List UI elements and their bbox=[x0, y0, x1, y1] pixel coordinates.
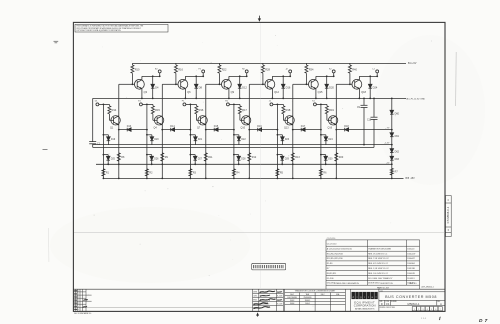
resistor R20 bbox=[335, 153, 344, 161]
wire: base feed bbox=[336, 83, 352, 85]
svg-text:R13: R13 bbox=[295, 156, 300, 159]
drafters/approvals table bbox=[253, 289, 284, 311]
diode D4 bbox=[151, 76, 159, 98]
diode D60 bbox=[390, 110, 400, 115]
node: diode to next line A bbox=[190, 129, 192, 131]
node: bottom rail junctions bbox=[103, 178, 105, 180]
svg-text:D18: D18 bbox=[344, 125, 349, 128]
svg-text:C1,C9,C10: C1,C9,C10 bbox=[327, 244, 337, 246]
diode D24 bbox=[320, 134, 333, 145]
wire: input bbox=[316, 103, 327, 105]
svg-text:CHK.: CHK. bbox=[253, 296, 258, 298]
node -1.4V tap bbox=[391, 144, 393, 146]
svg-text:B:B -15V: B:B -15V bbox=[406, 178, 416, 180]
svg-text:D24: D24 bbox=[373, 85, 378, 89]
left margin tick marks bbox=[43, 41, 59, 149]
node: diode to next line A bbox=[320, 129, 322, 131]
svg-text:D30: D30 bbox=[328, 158, 333, 160]
node: emitter on GND rail bbox=[359, 98, 361, 100]
svg-text:D20: D20 bbox=[154, 139, 159, 141]
wire: base feed bbox=[293, 83, 309, 85]
resistor R28 bbox=[261, 63, 270, 84]
resistor R22 bbox=[218, 63, 227, 84]
svg-text:2: 2 bbox=[418, 309, 419, 311]
wire: vertical channel line bbox=[161, 84, 163, 178]
node: bottom rail junctions bbox=[146, 178, 148, 180]
wire: line A vertical bbox=[276, 104, 278, 178]
capacitor C1 bbox=[89, 142, 101, 148]
output terminal J2 bbox=[286, 69, 292, 77]
node: bottom rail junctions bbox=[320, 178, 322, 180]
svg-text:1300249: 1300249 bbox=[407, 273, 415, 275]
svg-text:RES. 1K 1/4W 5% CC: RES. 1K 1/4W 5% CC bbox=[368, 253, 388, 255]
node: bottom rail junctions bbox=[277, 178, 279, 180]
top center alignment arrow bbox=[258, 16, 261, 22]
transistor Q9 bbox=[222, 76, 235, 98]
node: diode on GND rail bbox=[195, 98, 197, 100]
node -2V tap bbox=[391, 163, 393, 165]
node: emitter on GND rail bbox=[315, 98, 317, 100]
wire: -2V bias rail bbox=[96, 163, 392, 165]
node: diode to next line A bbox=[233, 129, 235, 131]
revision table bbox=[73, 289, 257, 311]
svg-text:NUMBER: NUMBER bbox=[391, 301, 397, 303]
node: base junction bbox=[132, 83, 134, 85]
wire: vertical channel line bbox=[292, 84, 294, 178]
svg-text:-.7V: -.7V bbox=[385, 127, 390, 129]
input terminal H1 bbox=[225, 101, 229, 106]
svg-text:BUS CONVERTER M508: BUS CONVERTER M508 bbox=[385, 295, 437, 299]
resistor R40 bbox=[348, 63, 357, 84]
output terminal L2 bbox=[373, 69, 379, 77]
transistor Q13 bbox=[284, 116, 294, 130]
svg-text:C1: C1 bbox=[97, 142, 101, 146]
svg-text:A 1,D5,D4,D6,D7,D8,D9,D10: A 1,D5,D4,D6,D7,D8,D9,D10 bbox=[327, 247, 352, 250]
svg-text:Q18: Q18 bbox=[361, 90, 366, 94]
svg-text:D7: D7 bbox=[479, 318, 490, 324]
svg-text:D15: D15 bbox=[214, 125, 219, 128]
node: input junction bbox=[277, 104, 279, 106]
wire: -15V stub bbox=[392, 177, 404, 179]
svg-text:R15: R15 bbox=[155, 108, 160, 112]
output terminal H2 bbox=[242, 69, 248, 77]
svg-text:R10-R12,R22,R34: R10-R12,R22,R34 bbox=[327, 253, 344, 255]
svg-text:D17: D17 bbox=[301, 125, 306, 128]
wire: input bbox=[229, 103, 240, 105]
diode D24 bbox=[368, 76, 378, 98]
diode D26 bbox=[146, 154, 159, 165]
wire: base feed bbox=[162, 83, 178, 85]
svg-text:RES. 7.5K 1/4W 5% CC: RES. 7.5K 1/4W 5% CC bbox=[368, 258, 389, 260]
node: base junction bbox=[262, 83, 264, 85]
wire: base feed bbox=[119, 83, 135, 85]
wire: collector to output bbox=[359, 75, 377, 77]
wire: bias diode chain bbox=[391, 98, 393, 178]
svg-text:1: 1 bbox=[414, 309, 415, 311]
handwritten signatures bbox=[260, 291, 276, 293]
drawing border frame bbox=[73, 22, 445, 311]
node: base junction bbox=[349, 83, 351, 85]
node: diode on GND rail bbox=[369, 98, 371, 100]
resistor R7 bbox=[390, 168, 398, 175]
svg-text:1303-00: 1303-00 bbox=[407, 248, 414, 250]
svg-text:DEC: DEC bbox=[290, 294, 295, 296]
diode D14 bbox=[162, 125, 190, 131]
svg-text:D24: D24 bbox=[328, 139, 333, 141]
svg-text:CS M508-0-1: CS M508-0-1 bbox=[446, 206, 450, 223]
svg-text:1301338: 1301338 bbox=[407, 268, 415, 270]
input terminal J1 bbox=[269, 101, 273, 106]
svg-text:1 1 4: 1 1 4 bbox=[421, 318, 427, 320]
resistor R9 bbox=[161, 153, 169, 161]
resistor R16 bbox=[174, 63, 183, 84]
diode D13 bbox=[119, 125, 147, 131]
svg-text:TRANSISTOR DEC3009B: TRANSISTOR DEC3009B bbox=[368, 247, 391, 250]
svg-text:D13: D13 bbox=[127, 125, 132, 128]
diode D28 bbox=[233, 154, 246, 165]
wire: -1.4V bias rail bbox=[93, 144, 392, 146]
parts list table bbox=[326, 238, 434, 289]
svg-text:R18: R18 bbox=[286, 108, 291, 112]
svg-text:R8,R9,R11: R8,R9,R11 bbox=[327, 273, 336, 275]
node: clamp diode tap bbox=[195, 75, 197, 77]
diode D20 bbox=[146, 134, 159, 145]
svg-text:Q6: Q6 bbox=[187, 90, 191, 94]
svg-text:DRB 110: DRB 110 bbox=[85, 313, 92, 315]
capacitor C9 bbox=[357, 98, 368, 146]
note box with proprietary notice bbox=[75, 24, 168, 32]
svg-text:R10: R10 bbox=[135, 68, 140, 72]
svg-text:SYMBOL/REF. DESIGNATION: SYMBOL/REF. DESIGNATION bbox=[334, 282, 359, 285]
diode D17 bbox=[293, 125, 321, 131]
diode D29 bbox=[277, 154, 290, 165]
node: clamp diode tap bbox=[282, 75, 284, 77]
wire: line A vertical bbox=[102, 104, 104, 178]
svg-text:3: 3 bbox=[422, 309, 423, 311]
wire: line A vertical bbox=[146, 104, 148, 178]
svg-text:CORPORATION: CORPORATION bbox=[354, 304, 376, 308]
resistor R8 bbox=[117, 153, 125, 161]
node: emitter on GND rail bbox=[228, 98, 230, 100]
svg-text:DIO. D664 100V 25MA DO7: DIO. D664 100V 25MA DO7 bbox=[368, 277, 392, 280]
diode D61 bbox=[390, 133, 400, 138]
resistor R13 bbox=[291, 153, 300, 161]
svg-text:PART NO.: PART NO. bbox=[409, 282, 417, 285]
input terminal E1 bbox=[138, 101, 142, 106]
revision row smudges bbox=[74, 291, 77, 310]
diode D27 bbox=[190, 154, 203, 165]
diode D8 bbox=[194, 76, 202, 98]
node: emitter junction bbox=[292, 129, 294, 131]
node: emitter on GND rail bbox=[272, 98, 274, 100]
node: diode to next line A bbox=[146, 129, 148, 131]
wire: +5V top rail bbox=[133, 62, 407, 64]
diode D12 bbox=[238, 76, 248, 98]
node: bottom rail junctions bbox=[233, 178, 235, 180]
svg-text:R28: R28 bbox=[265, 68, 270, 72]
transistor Q16 bbox=[328, 116, 338, 130]
transistor Q4 bbox=[154, 116, 164, 130]
transistor Q12 bbox=[265, 76, 280, 98]
svg-text:DIODE D664: DIODE D664 bbox=[368, 283, 380, 285]
resistor R1 bbox=[102, 169, 110, 176]
wire: vertical channel line bbox=[205, 84, 207, 178]
transistor Q7 bbox=[197, 116, 207, 130]
svg-text:DEC3009B: DEC3009B bbox=[287, 297, 297, 299]
paper mottling (decorative, not labelled) bbox=[50, 35, 485, 283]
wire: bottom -15V rail bbox=[103, 177, 391, 179]
node: clamp diode tap bbox=[326, 75, 328, 77]
node bottom rail join bbox=[391, 178, 393, 180]
svg-text:R12: R12 bbox=[252, 156, 257, 159]
svg-text:6: 6 bbox=[435, 309, 436, 311]
svg-text:R7: R7 bbox=[327, 268, 329, 270]
svg-text:1N645: 1N645 bbox=[305, 300, 311, 302]
diode D25 bbox=[103, 154, 116, 165]
transistor & diode conversion chart bbox=[285, 289, 351, 311]
node: diode to next line A bbox=[277, 129, 279, 131]
node: emitter junction bbox=[118, 129, 120, 131]
svg-text:7: 7 bbox=[440, 309, 441, 311]
svg-text:Q10: Q10 bbox=[241, 127, 246, 130]
svg-text:-1.4V: -1.4V bbox=[384, 143, 390, 145]
svg-text:Q3: Q3 bbox=[144, 90, 148, 94]
transistor Q3 bbox=[135, 76, 148, 98]
svg-text:CS: CS bbox=[380, 290, 382, 292]
wire: collector to output bbox=[316, 75, 334, 77]
node: bottom rail junctions bbox=[190, 178, 192, 180]
node: input junction bbox=[190, 104, 192, 106]
diode D63 bbox=[390, 156, 400, 161]
resistor R14 bbox=[108, 104, 117, 120]
logo cell border bbox=[378, 289, 380, 311]
title block: BUS CONVERTER M508 bbox=[379, 290, 445, 311]
wire: collector to output bbox=[142, 75, 160, 77]
node: diode on GND rail bbox=[326, 98, 328, 100]
node -0.7V tap bbox=[391, 129, 393, 131]
svg-text:D22: D22 bbox=[241, 139, 246, 141]
resistor R16 bbox=[195, 104, 204, 120]
svg-text:PARTS LIST: PARTS LIST bbox=[377, 286, 390, 289]
node: emitter junction bbox=[335, 129, 337, 131]
node: base junction bbox=[306, 83, 308, 85]
wire: collector to output bbox=[229, 75, 247, 77]
svg-text:R40: R40 bbox=[352, 68, 357, 72]
node: input junction bbox=[320, 104, 322, 106]
node: diode on GND rail bbox=[239, 98, 241, 100]
wire: input bbox=[99, 103, 110, 105]
svg-text:B:A +5V: B:A +5V bbox=[408, 62, 417, 65]
svg-text:R17: R17 bbox=[242, 108, 247, 112]
wire: line A vertical bbox=[320, 104, 322, 178]
svg-text:RES. 1.5K 1/4W 5% CC: RES. 1.5K 1/4W 5% CC bbox=[368, 268, 389, 270]
svg-text:D27: D27 bbox=[198, 158, 203, 160]
wire: vertical channel line bbox=[118, 84, 120, 178]
resistor R10 bbox=[131, 63, 140, 84]
revision handwritten marks bbox=[84, 299, 88, 300]
transistor Q1 bbox=[110, 116, 120, 130]
right margin number strip bbox=[446, 196, 452, 237]
resistor R4 bbox=[232, 169, 240, 176]
svg-text:RES. 100 1/4W 5% CC: RES. 100 1/4W 5% CC bbox=[368, 273, 389, 275]
svg-text:R34: R34 bbox=[309, 68, 314, 72]
bottom center alignment arrow bbox=[256, 312, 259, 316]
svg-text:DESCRIPTION: DESCRIPTION bbox=[380, 283, 393, 285]
node: base junction bbox=[175, 83, 177, 85]
resistor R6 bbox=[319, 169, 327, 176]
svg-text:A-PL-M508-0-1: A-PL-M508-0-1 bbox=[422, 286, 434, 289]
resistor R5 bbox=[276, 169, 284, 176]
wire: line A vertical bbox=[189, 104, 191, 178]
svg-text:C10: C10 bbox=[367, 119, 372, 121]
transistor Q15 bbox=[309, 76, 324, 98]
node: base junction bbox=[219, 83, 221, 85]
transistor Q10 bbox=[241, 116, 251, 130]
node: input junction bbox=[233, 104, 235, 106]
wire: base feed bbox=[206, 83, 222, 85]
resistor R34 bbox=[305, 63, 314, 84]
output terminal F2 bbox=[199, 69, 205, 77]
wire: collector to output bbox=[272, 75, 290, 77]
svg-text:D12: D12 bbox=[242, 85, 247, 89]
svg-text:R22: R22 bbox=[222, 68, 227, 72]
svg-text:D4: D4 bbox=[155, 85, 159, 89]
resistor R19 bbox=[325, 104, 334, 120]
svg-text:D26: D26 bbox=[154, 158, 159, 160]
diode D19 bbox=[103, 134, 116, 145]
diode D16 bbox=[249, 125, 277, 131]
node: clamp diode tap bbox=[152, 75, 154, 77]
resistor R18 bbox=[282, 104, 291, 120]
svg-text:R11: R11 bbox=[208, 156, 213, 159]
resistor R3 bbox=[189, 169, 197, 176]
svg-text:Q16: Q16 bbox=[328, 127, 333, 130]
transistor Q18 bbox=[352, 76, 367, 98]
title band top line bbox=[73, 288, 445, 290]
svg-text:DEC: DEC bbox=[321, 294, 326, 296]
wire: collector to output bbox=[185, 75, 203, 77]
node: emitter junction bbox=[205, 129, 207, 131]
transistor Q6 bbox=[178, 76, 191, 98]
svg-text:D664: D664 bbox=[305, 303, 310, 305]
connector J1 (card edge) bbox=[252, 263, 286, 270]
diode D23 bbox=[277, 134, 290, 145]
wire: input bbox=[186, 103, 197, 105]
DEC digital logo bbox=[352, 292, 378, 310]
svg-text:R14: R14 bbox=[112, 108, 117, 112]
svg-text:8-2-68: 8-2-68 bbox=[277, 296, 282, 298]
svg-text:4: 4 bbox=[427, 309, 428, 311]
wire: vertical channel line bbox=[335, 84, 337, 178]
svg-text:ENG.: ENG. bbox=[253, 300, 258, 302]
svg-text:D16: D16 bbox=[257, 125, 262, 128]
svg-text:2N3009B: 2N3009B bbox=[303, 297, 312, 299]
svg-text:Q12: Q12 bbox=[274, 90, 279, 94]
svg-text:R13,R14,R15,R16: R13,R14,R15,R16 bbox=[327, 258, 343, 260]
svg-text:R16: R16 bbox=[199, 108, 204, 112]
node: diode on GND rail bbox=[152, 98, 154, 100]
svg-text:D29: D29 bbox=[285, 158, 290, 160]
svg-text:D1-D30: D1-D30 bbox=[327, 278, 334, 280]
scan streak artifact bbox=[455, 52, 458, 106]
svg-text:D664: D664 bbox=[290, 303, 295, 305]
svg-text:R19: R19 bbox=[329, 108, 334, 112]
node: emitter on GND rail bbox=[185, 98, 187, 100]
wire: vertical channel line bbox=[248, 84, 250, 178]
svg-text:D62: D62 bbox=[395, 151, 400, 154]
node: emitter junction bbox=[248, 129, 250, 131]
input terminal F1 bbox=[182, 101, 186, 106]
resistor R12 bbox=[248, 153, 257, 161]
svg-text:D16: D16 bbox=[286, 85, 291, 89]
node: input junction bbox=[146, 104, 148, 106]
svg-text:Q15: Q15 bbox=[318, 90, 323, 94]
wire: GND rail bbox=[93, 97, 405, 99]
svg-text:RES. 470 1/4W 5% CC: RES. 470 1/4W 5% CC bbox=[368, 263, 389, 265]
node: emitter on GND rail bbox=[141, 98, 143, 100]
node: clamp diode tap bbox=[239, 75, 241, 77]
svg-text:D60: D60 bbox=[395, 112, 400, 115]
wire: input bbox=[273, 103, 284, 105]
resistor R17 bbox=[238, 104, 247, 120]
svg-text:Q13: Q13 bbox=[284, 127, 289, 130]
node: clamp diode tap bbox=[369, 75, 371, 77]
wire: base feed bbox=[249, 83, 265, 85]
diode D15 bbox=[206, 125, 234, 131]
input terminal K1 bbox=[312, 101, 316, 106]
svg-text:A,C,F1,J2,S2 GND: A,C,F1,J2,S2 GND bbox=[407, 98, 426, 101]
svg-text:D28: D28 bbox=[241, 158, 246, 160]
wire: dashed rail ends bbox=[405, 97, 407, 99]
output terminal K2 bbox=[329, 69, 335, 77]
svg-text:D63: D63 bbox=[395, 158, 400, 161]
svg-text:1300364: 1300364 bbox=[407, 263, 415, 265]
diode D30 bbox=[320, 154, 333, 165]
svg-text:1100113: 1100113 bbox=[407, 278, 414, 280]
wire: capacitor return rail bbox=[93, 146, 374, 148]
svg-text:Q9: Q9 bbox=[231, 90, 235, 94]
wire: input bbox=[142, 103, 153, 105]
svg-text:PRINTED CIRCUIT REV.: PRINTED CIRCUIT REV. bbox=[380, 307, 396, 309]
diode D62 bbox=[390, 149, 400, 154]
fold crease lines (scan artifact) bbox=[74, 231, 445, 233]
output terminal E2 bbox=[155, 69, 161, 77]
svg-text:D20: D20 bbox=[329, 85, 334, 89]
diode D20 bbox=[325, 76, 335, 98]
svg-text:R20: R20 bbox=[339, 156, 344, 159]
svg-text:1300447: 1300447 bbox=[407, 258, 415, 260]
node: input junction bbox=[103, 104, 105, 106]
node: emitter junction bbox=[161, 129, 163, 131]
svg-text:8-5-68: 8-5-68 bbox=[277, 304, 282, 306]
resistor R2 bbox=[145, 169, 153, 176]
diode D22 bbox=[233, 134, 246, 145]
svg-text:DRN.: DRN. bbox=[253, 292, 258, 294]
svg-text:1300-007: 1300-007 bbox=[407, 253, 415, 255]
svg-text:TRANSISTOR & DIODE CONVERSION: TRANSISTOR & DIODE CONVERSION CHART bbox=[295, 290, 337, 293]
wire: left drop from GND rail bbox=[92, 98, 94, 141]
capacitor C10 bbox=[367, 98, 378, 148]
svg-text:D14: D14 bbox=[170, 125, 175, 128]
diode D21 bbox=[190, 134, 203, 145]
svg-text:D662: D662 bbox=[290, 300, 295, 302]
diode D16 bbox=[281, 76, 291, 98]
resistor R11 bbox=[204, 153, 213, 161]
svg-text:-2V: -2V bbox=[386, 162, 390, 164]
resistor R15 bbox=[151, 104, 160, 120]
svg-text:D8: D8 bbox=[199, 85, 203, 89]
svg-text:R1-R6: R1-R6 bbox=[327, 263, 333, 265]
